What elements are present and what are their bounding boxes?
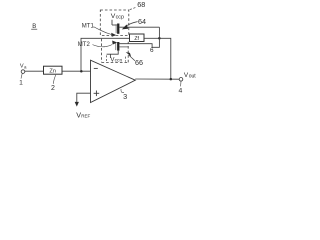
impedance Zn (2) bbox=[44, 66, 63, 92]
svg-text:64: 64 bbox=[138, 17, 146, 26]
terminal 4 (output Vout) bbox=[179, 72, 197, 94]
svg-text:3: 3 bbox=[123, 92, 127, 101]
wire: Va to Zn bbox=[25, 70, 44, 72]
wire: op-amp output to terminal bbox=[135, 78, 179, 80]
wire: Zf right to junction bbox=[144, 37, 159, 39]
svg-text:Zn: Zn bbox=[49, 68, 56, 74]
label 66 bbox=[126, 52, 143, 67]
svg-text:68: 68 bbox=[137, 0, 145, 9]
svg-text:4: 4 bbox=[179, 87, 183, 94]
node: feedback/output junction bbox=[158, 37, 161, 40]
svg-text:2: 2 bbox=[51, 85, 55, 92]
node: output junction bbox=[170, 78, 173, 81]
svg-text:Zf: Zf bbox=[134, 36, 139, 42]
dashed box 66 bbox=[102, 39, 129, 63]
Vref reference arrow at non-inverting input bbox=[75, 93, 91, 119]
terminal 1 (input Va) bbox=[19, 64, 27, 87]
transistor MT1 bbox=[82, 20, 160, 39]
wire: Zn to op-amp inverting input bbox=[62, 70, 91, 72]
Vccp supply label bbox=[111, 13, 124, 20]
dashed box 68 bbox=[100, 10, 129, 35]
transistor MT2 bbox=[78, 38, 160, 61]
impedance Zf (6) bbox=[130, 34, 145, 42]
wire: junction to output column bbox=[159, 38, 170, 79]
op-amp U3 bbox=[91, 60, 136, 102]
svg-text:MT1: MT1 bbox=[82, 23, 95, 29]
svg-text:ccp: ccp bbox=[116, 14, 124, 20]
svg-text:REF: REF bbox=[81, 113, 90, 118]
svg-text:1: 1 bbox=[19, 79, 23, 86]
svg-text:MT2: MT2 bbox=[78, 42, 91, 48]
label 64 bbox=[122, 17, 146, 29]
svg-text:66: 66 bbox=[135, 58, 143, 67]
label 68 bbox=[130, 0, 146, 9]
wire: feedback riser and run to Zf bbox=[81, 38, 130, 71]
svg-text:6: 6 bbox=[150, 47, 154, 54]
Vccn supply label bbox=[110, 56, 122, 63]
node: inverting input junction bbox=[80, 70, 83, 73]
svg-text:out: out bbox=[189, 74, 197, 80]
node B bbox=[31, 24, 37, 30]
